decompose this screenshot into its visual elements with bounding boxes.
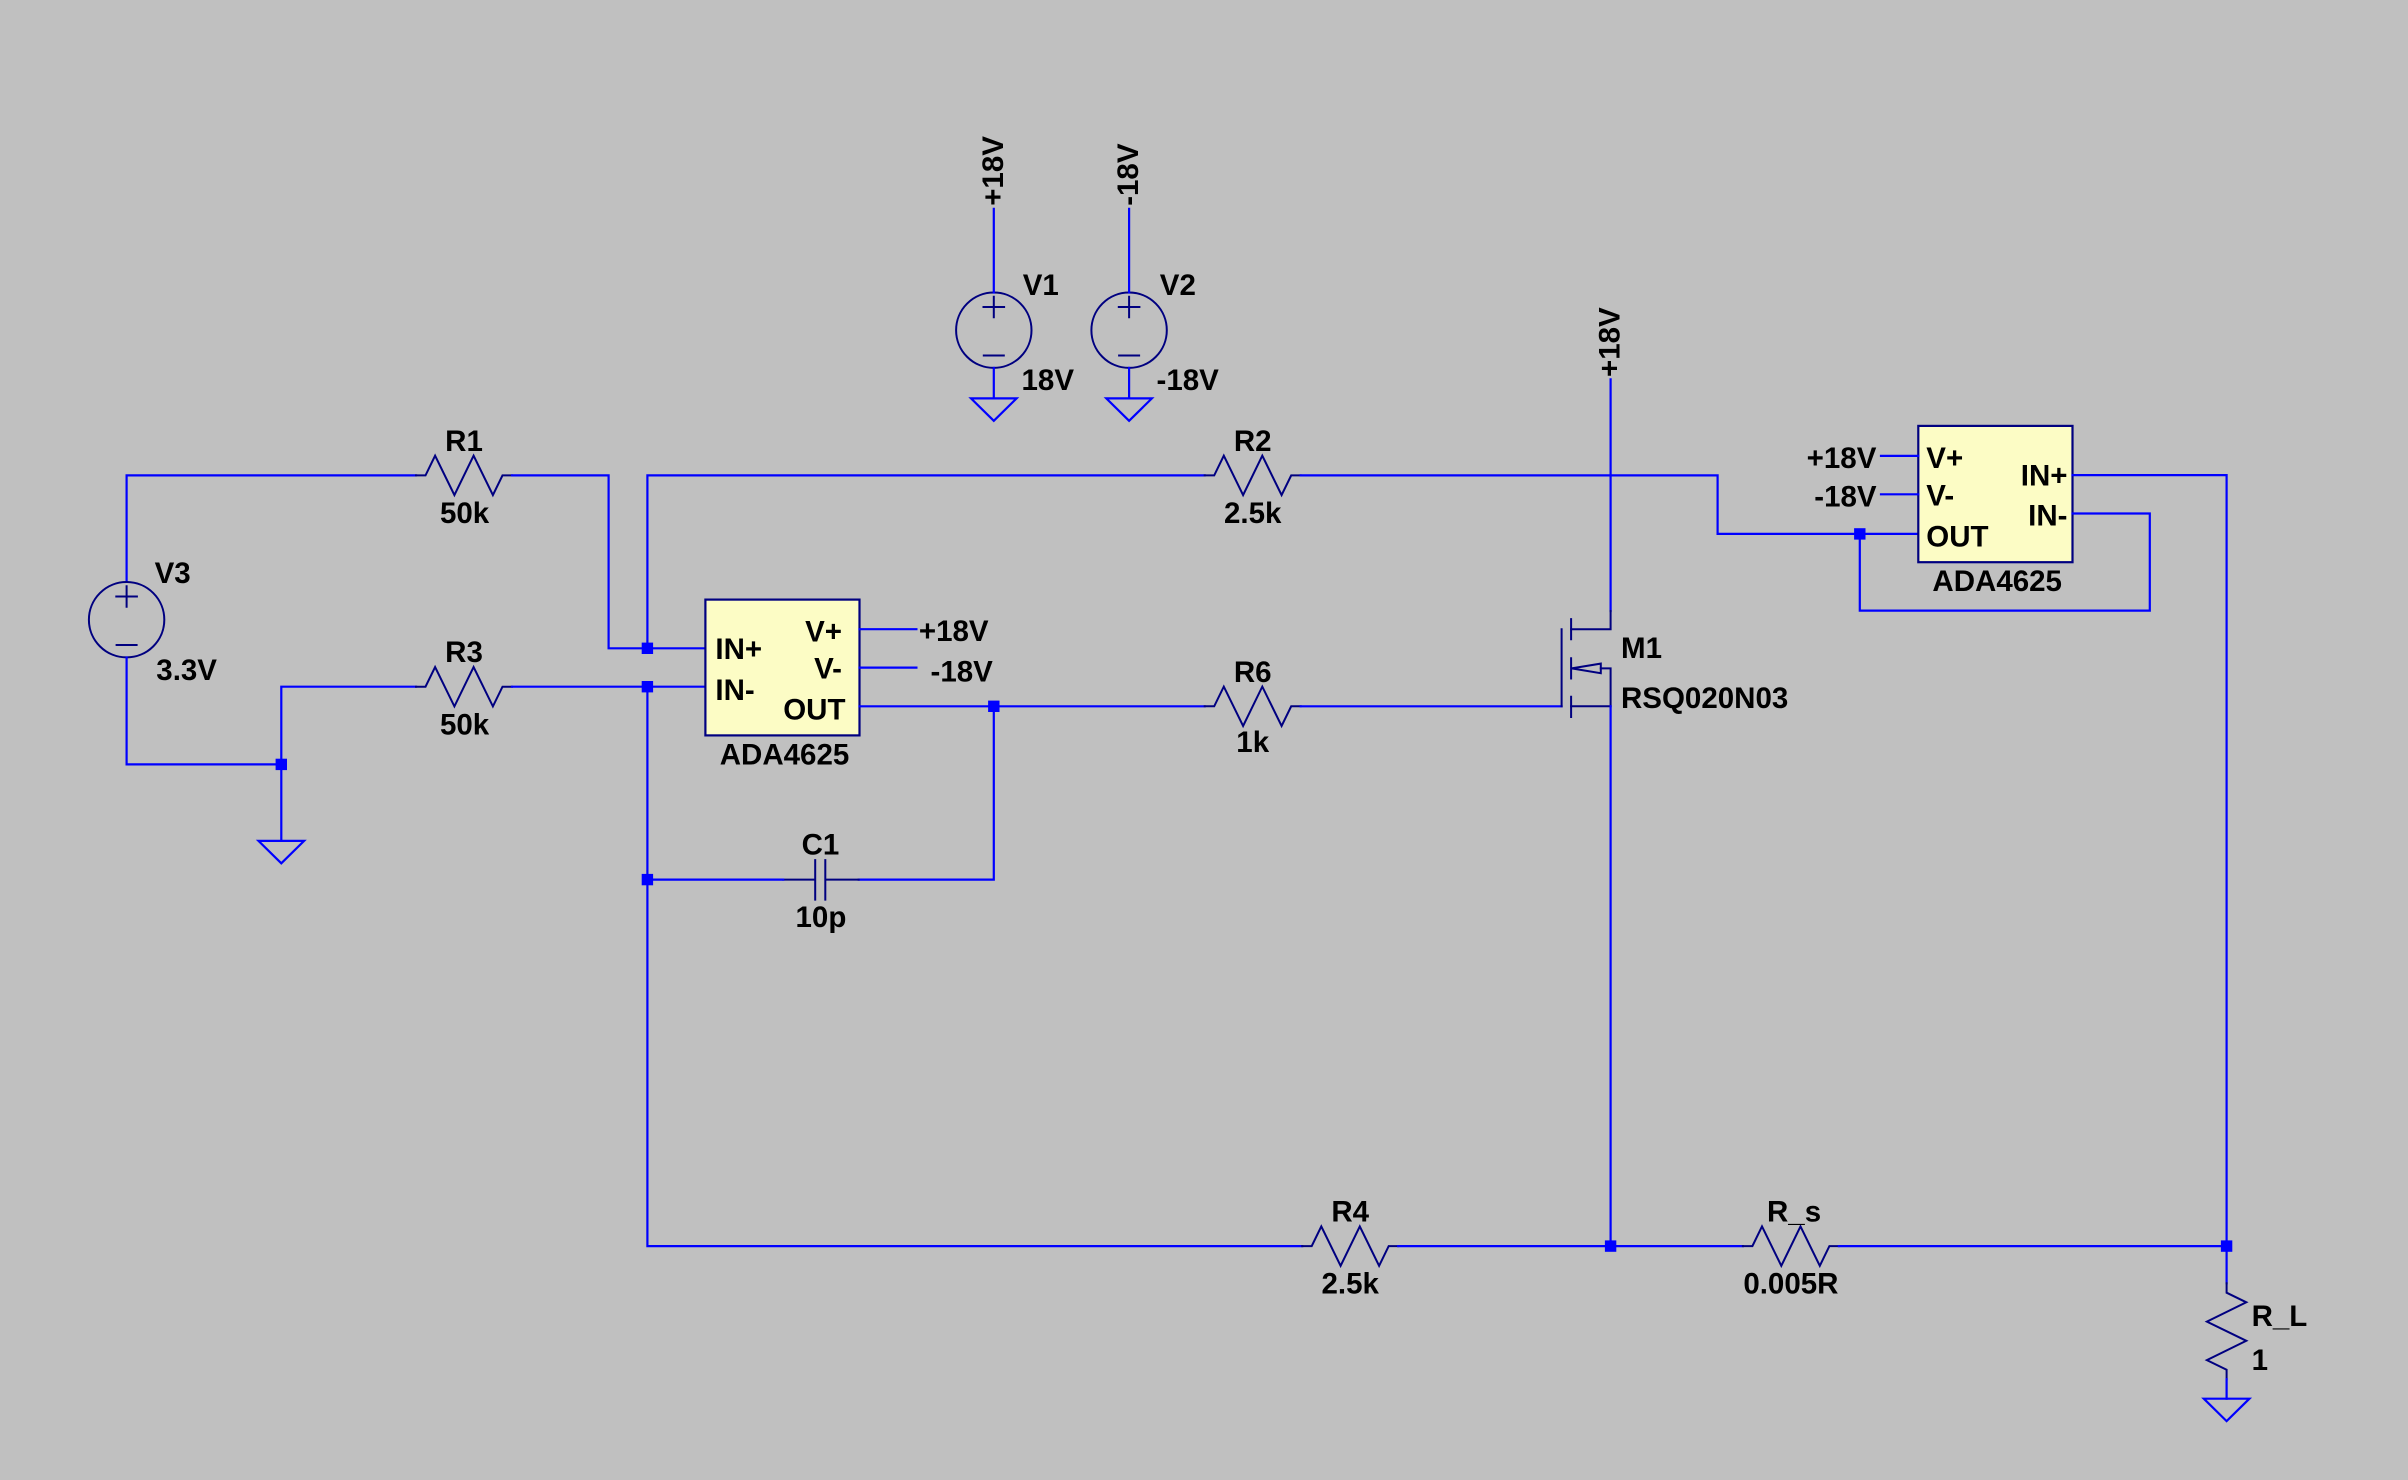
wire U2 V- [1881,493,1918,495]
svg-text:+18V: +18V [1807,442,1877,475]
resistor R_L [2207,1283,2246,1379]
svg-text:R_L: R_L [2252,1300,2308,1333]
resistor R2 [1205,456,1301,495]
svg-text:+18V: +18V [1594,307,1627,377]
resistor R6 [1205,687,1301,726]
node junction IN- [642,681,653,692]
resistor R_s [1743,1226,1839,1265]
wire U2 V+ [1881,455,1918,457]
wire U1 V- [860,666,917,668]
svg-text:IN-: IN- [715,674,754,707]
svg-text:V+: V+ [1926,442,1963,475]
svg-text:2.5k: 2.5k [1321,1268,1379,1301]
voltage source V2 [1091,269,1219,397]
wire U2 feedback loop [1860,514,2150,611]
svg-text:C1: C1 [802,828,840,861]
wire +18V to M1 drain [1609,379,1611,611]
resistor R1 [416,456,512,495]
svg-text:-18V: -18V [1814,480,1877,513]
wire R2 branch up [647,475,1204,648]
op-amp U2 ADA4625 [1918,426,2072,598]
wire R_s to right rail [1839,1245,2227,1247]
node junction IN+ [642,643,653,654]
wire V3 bottom loop [127,658,282,765]
ground V1 [971,398,1017,420]
wire V2 top [1128,209,1130,293]
node junction C1 left [642,874,653,885]
svg-text:R2: R2 [1234,425,1272,458]
svg-text:R4: R4 [1331,1196,1369,1229]
node junction U2 OUT [1854,528,1865,539]
wire V1 top [993,209,995,293]
svg-text:M1: M1 [1621,632,1662,665]
wire U1 V+ [860,628,917,630]
wire U2 IN+ to right rail [2073,475,2227,1246]
wire R6 to M1 gate [1301,705,1562,707]
svg-text:+18V: +18V [919,615,989,648]
svg-text:50k: 50k [440,497,490,530]
svg-text:ADA4625: ADA4625 [1932,565,2062,598]
svg-text:3.3V: 3.3V [156,654,217,687]
ground R_L [2204,1399,2250,1421]
ground V2 [1106,398,1152,420]
wire V1 bottom [993,368,995,399]
voltage source V1 [956,269,1074,397]
wire V3 top to R1 [127,475,416,582]
svg-text:IN+: IN+ [715,633,762,666]
svg-text:IN+: IN+ [2021,460,2068,493]
svg-text:R_s: R_s [1767,1196,1821,1229]
svg-text:V1: V1 [1023,269,1059,302]
resistor R3 [416,667,512,706]
svg-text:V2: V2 [1160,269,1196,302]
svg-text:1k: 1k [1236,726,1269,759]
svg-text:IN-: IN- [2028,500,2067,533]
wire U1 OUT to R6 [860,705,1205,707]
svg-text:V3: V3 [155,557,191,590]
svg-text:1: 1 [2252,1344,2268,1377]
wire to R_L [2226,1246,2228,1283]
svg-text:18V: 18V [1022,364,1075,397]
wire C1 left branch [647,878,783,880]
node junction V3 gnd [276,759,287,770]
resistor R4 [1302,1226,1398,1265]
svg-text:OUT: OUT [1926,521,1988,554]
svg-text:2.5k: 2.5k [1224,497,1282,530]
wire R4 to M1 source junction [1398,1245,1743,1247]
wire IN- down to C1 and R4 rail [647,687,1302,1246]
svg-text:RSQ020N03: RSQ020N03 [1621,682,1788,715]
svg-text:-18V: -18V [1157,364,1220,397]
svg-text:+18V: +18V [977,136,1010,206]
wire to ground V3 [280,764,282,841]
svg-text:-18V: -18V [931,656,994,689]
svg-text:R3: R3 [445,636,483,669]
wire R_L to ground [2226,1379,2228,1399]
svg-text:R1: R1 [445,425,483,458]
wire C1 right branch [859,706,994,879]
svg-text:R6: R6 [1234,656,1272,689]
wire R1 to IN+ junction [512,475,705,648]
svg-text:V-: V- [1926,480,1954,513]
node junction R_L top [2221,1240,2232,1251]
node junction M1 source rail [1605,1240,1616,1251]
capacitor C1 [783,828,859,933]
svg-text:V+: V+ [805,615,842,648]
svg-text:OUT: OUT [783,693,845,726]
svg-text:ADA4625: ADA4625 [720,738,850,771]
svg-text:50k: 50k [440,708,490,741]
wire V2 bottom [1128,368,1130,399]
svg-text:0.005R: 0.005R [1743,1268,1838,1301]
wire M1 source down [1609,706,1611,1246]
svg-text:-18V: -18V [1112,143,1145,206]
node junction OUT [988,701,999,712]
svg-text:V-: V- [814,652,842,685]
op-amp U1 ADA4625 [705,600,859,772]
wire R2 to U2 OUT [1301,475,1919,534]
svg-text:10p: 10p [796,901,847,934]
ground V3 [259,841,305,863]
voltage source V3 [89,557,217,687]
transistor M1 [1562,611,1789,717]
wire R3 to IN- [512,686,705,688]
wire R3 branch up [281,687,416,765]
